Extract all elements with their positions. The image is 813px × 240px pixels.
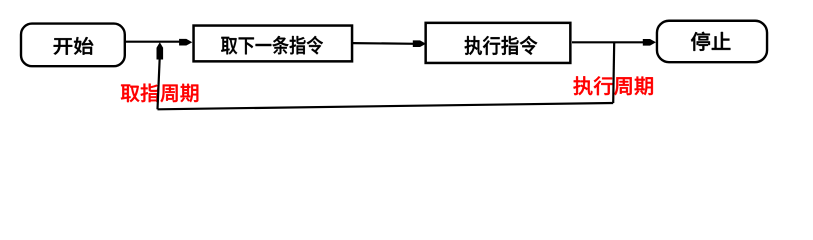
label 开始 xyxy=(54,37,94,55)
arrowhead into Execute box xyxy=(413,40,426,47)
feedback wire: bottom slanted segment xyxy=(158,103,614,109)
label 执行指令 xyxy=(465,36,538,55)
label 取下一条指令 xyxy=(221,36,323,55)
terminal Stop (停止) rounded rect xyxy=(657,21,767,62)
wire Fetch to Execute box xyxy=(353,42,416,45)
wire Start to Fetch box xyxy=(126,41,181,43)
red label 取指周期 xyxy=(121,84,198,103)
arrowhead into Fetch box xyxy=(179,39,192,46)
flowchart: CPU instruction cycle xyxy=(0,0,813,121)
wire Execute to Stop box xyxy=(572,41,645,43)
arrowhead into Stop box xyxy=(643,39,656,46)
label 停止 xyxy=(691,32,731,51)
terminal Start (开始) rounded rect xyxy=(21,24,125,67)
red label 执行周期 xyxy=(573,76,652,95)
process box Execute (执行指令) xyxy=(426,23,571,63)
feedback wire: up segment to Start-Fetch wire xyxy=(158,58,160,109)
feedback wire: down segment from Execute-Stop wire xyxy=(613,42,614,103)
arrowhead up into Start-Fetch wire xyxy=(157,42,164,59)
process box Fetch (取下一条指令) xyxy=(194,26,352,62)
